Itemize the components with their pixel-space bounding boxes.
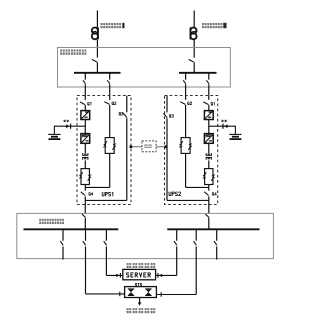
wire into STS right [156,292,196,297]
label SERVER [127,273,151,277]
label [212,193,216,196]
breaker on input 1 [92,59,97,62]
static switch bypass UPS2 [179,138,192,154]
label UPS1 [102,192,113,196]
label 单电源负载 [127,308,156,313]
wire [84,143,86,153]
parallel control box [142,141,156,152]
wire [96,40,98,58]
UPS2 enclosure dashed [165,96,218,205]
blade Q3 [123,113,127,117]
bus bar output left [24,228,119,230]
wire [208,160,210,168]
wire [193,40,195,58]
wire [208,84,210,100]
node [164,145,167,148]
inverter U1 [81,134,90,144]
wire [109,105,111,137]
wire battery feed 1 [54,125,85,127]
arrowhead [138,302,142,305]
breaker bypass UPS2 [180,102,185,105]
output distribution cabinet box [17,213,274,258]
wire [84,196,86,213]
label 输入电源1 [101,23,125,28]
static switch bypass [103,138,116,154]
label STS [135,283,141,286]
wire STS output [139,298,141,303]
inverter U2 [204,134,213,144]
battery fuse label 2 [222,120,227,122]
plug connector 2 [223,124,228,129]
wire [208,105,210,111]
breaker Q2 [104,102,109,105]
wire into SERVER left [106,273,122,278]
label 双电源负载 [127,263,156,268]
wire [234,126,236,134]
input source 2 plug symbol [190,27,196,39]
wire bypass join [85,186,109,188]
wire [185,105,187,137]
wire [126,118,128,200]
feeder breaker [107,80,110,83]
breaker UPS1 output to bus [82,214,85,217]
label [188,102,192,105]
wire [185,84,187,100]
static switch inverter side [79,169,91,185]
load box SERVER [123,269,156,279]
maintenance line UPS2 [166,96,168,113]
wire input feed 2 [193,11,195,28]
wire maintenance join UPS2 [167,199,209,201]
node [129,145,132,148]
label UPS2 [169,192,181,196]
thyristor pair symbol 1 [128,288,134,296]
rectifier U1 [81,111,90,120]
input source 1 plug symbol [92,27,98,39]
label Q2 [112,102,116,105]
bus bar right [179,72,217,74]
feeder breaker [183,80,186,83]
wire UPS1 rectifier feed [84,73,86,80]
wire battery feed 2 [209,125,236,127]
wire [109,153,111,187]
battery B2 [229,134,241,139]
breaker Q1 UPS2 [203,102,208,105]
wire [84,84,86,100]
breaker on input 2 [189,59,194,62]
wire [208,218,210,230]
wire parallel link [131,146,166,148]
wire into STS left [86,292,125,297]
wire maintenance join [85,199,127,201]
wire UPS1 bypass feed [109,73,111,80]
wire [84,218,86,230]
breaker UPS2 output to bus [206,214,209,217]
plug connector [66,124,71,129]
wire UPS2 rectifier feed [208,73,210,80]
wire [193,62,195,72]
feeder to SERVER left [104,229,107,275]
wire input feed 1 [96,11,98,28]
label [169,115,173,118]
battery fuse label [64,120,69,122]
label [211,102,214,105]
breaker output UPS2 [204,192,208,196]
feeder stub left [60,229,63,259]
bus bar output right [167,228,259,230]
wire [166,118,168,200]
breaker Q4 [81,192,85,196]
label 输入配电柜 [60,50,86,55]
diode pair UPS2 [206,153,212,160]
wire [84,160,86,168]
battery B1 [48,134,60,139]
wire [84,185,86,191]
rectifier U2 [204,111,213,120]
diode pair [82,153,88,160]
label [144,144,151,148]
bus bar left [74,72,121,74]
breaker Q1 [80,102,85,105]
wire [208,143,210,153]
static transfer switch box STS [125,287,157,298]
wire [53,126,55,134]
UPS1 enclosure dashed [77,96,131,205]
wire [208,120,210,134]
wire UPS2 bypass feed [185,73,187,80]
label Q3 [119,112,123,115]
breaker Q3 maintenance [126,96,128,113]
feeder to STS right [194,229,197,294]
wire [84,105,86,111]
blade [163,113,167,117]
wire bypass join UPS2 [186,186,209,188]
static switch inverter side UPS2 [203,169,215,185]
wire [208,185,210,191]
label Q1 [88,102,91,105]
label Q4 [89,193,93,196]
feeder breaker [83,80,86,83]
wire [109,84,111,100]
wire into SERVER right [156,273,177,278]
thyristor pair symbol 2 [145,288,151,296]
input distribution cabinet box [58,48,231,88]
wire [84,120,86,134]
label 输出配电柜 [39,219,64,224]
label 输入电源2 [202,23,227,28]
feeder to SERVER right [174,229,177,275]
feeder breaker [206,80,209,83]
wire [96,62,98,72]
wire [208,196,210,213]
wire [185,153,187,187]
feeder stub right [214,229,217,259]
feeder to STS left [83,229,86,294]
